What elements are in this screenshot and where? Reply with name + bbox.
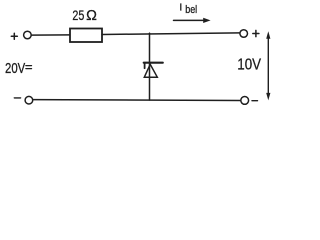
wire diode branch <box>149 33 151 100</box>
label I_bel <box>179 2 197 16</box>
terminal bottom-right <box>241 97 249 105</box>
wire top right segment <box>102 33 240 35</box>
svg-text:25: 25 <box>72 8 84 24</box>
minus sign right <box>252 100 258 102</box>
wire bottom <box>33 99 240 102</box>
terminal top-right <box>240 30 248 38</box>
dc symbol after 20V <box>26 66 32 69</box>
voltage arrow 10V double-headed <box>266 31 270 100</box>
resistor R 25ohm <box>70 29 102 43</box>
plus sign right <box>253 30 259 36</box>
label 25 ohm value <box>72 8 97 24</box>
zener diode anode triangle <box>144 64 157 77</box>
svg-text:20V: 20V <box>5 61 25 77</box>
terminal top-left <box>24 31 32 39</box>
svg-text:I: I <box>179 2 182 14</box>
minus sign left <box>14 97 20 99</box>
zener diode cathode bar <box>144 63 163 68</box>
terminal bottom-left <box>25 96 33 104</box>
svg-text:bel: bel <box>185 4 197 16</box>
wire top left segment <box>31 34 70 36</box>
plus sign left <box>11 33 17 39</box>
current arrow I_bel <box>174 18 211 23</box>
svg-text:10V: 10V <box>237 57 261 74</box>
svg-text:Ω: Ω <box>86 8 97 24</box>
